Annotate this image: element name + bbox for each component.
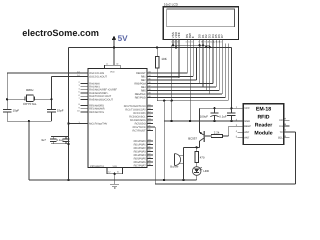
pin RA1/AN1 (3) — [81, 86, 89, 88]
junction MCLR node — [67, 122, 69, 124]
svg-text:RA5/AN4/SS/C2OUT: RA5/AN4/SS/C2OUT — [89, 98, 113, 101]
svg-text:MCLR/Vpp/THV: MCLR/Vpp/THV — [89, 122, 107, 125]
wire right crystal vertical — [51, 77, 53, 110]
resistor R1 10K — [156, 48, 158, 57]
LCD pin VEE (3) — [178, 39, 180, 43]
wire LCD gnd tie — [172, 44, 210, 46]
pin RB2 (35) — [147, 79, 153, 81]
svg-text:GND: GND — [244, 120, 250, 123]
LCD pin RS (4) — [186, 39, 188, 43]
wire to BEEP pin — [229, 125, 244, 127]
wire 5V rail horizontal — [69, 47, 232, 49]
resistor R2 2.2k — [205, 135, 211, 137]
LCD pin D4 (11) — [212, 39, 214, 43]
svg-text:ANT: ANT — [244, 131, 250, 134]
pin RA4/T0CKI/C1OUT (6) — [81, 95, 89, 97]
junction gnd row 1 — [163, 99, 165, 101]
svg-text:VDD: VDD — [110, 71, 115, 74]
LCD pin RW (5) — [189, 39, 191, 43]
svg-text:RD7/PSP7: RD7/PSP7 — [134, 164, 147, 167]
pin MCLR/Vpp/THV (1) — [81, 123, 89, 125]
wire bus D4 — [147, 83, 213, 85]
op-amp U1 PIC16F877A body — [88, 69, 147, 168]
pin RD3/PSP3 (22) — [147, 151, 153, 153]
pin OSC2/CLKOUT (14) — [81, 76, 89, 78]
pin RC7/RX/DT (26) — [147, 130, 153, 132]
LCD pin VSS (1) — [172, 39, 174, 43]
LCD module body — [163, 7, 238, 40]
capacitor C6 0.1uF — [230, 108, 232, 113]
pin RB1 (34) — [147, 76, 153, 78]
svg-text:100uF: 100uF — [200, 114, 208, 118]
wire bus D7 — [147, 93, 222, 95]
wire ground rail — [29, 179, 197, 181]
svg-text:2.2k: 2.2k — [214, 131, 220, 135]
junction crystal left — [6, 98, 8, 100]
capacitor C3 4u7 — [51, 135, 69, 137]
svg-text:VEE: VEE — [177, 32, 181, 38]
junction crystal right — [50, 98, 52, 100]
junction 10K top — [156, 46, 158, 48]
wire OSC1 to crystal — [7, 72, 88, 74]
wire left crystal vertical — [6, 73, 8, 110]
svg-text:EM-18: EM-18 — [256, 106, 271, 112]
LCD pin D0 (7) — [199, 39, 201, 43]
LCD pin D1 (8) — [202, 39, 204, 43]
junction buzzer gnd — [182, 179, 184, 181]
svg-text:470: 470 — [200, 155, 205, 159]
wire up to BEEP — [228, 126, 230, 136]
svg-text:E: E — [191, 36, 195, 38]
wire bus D6 — [147, 90, 219, 92]
pin OSC1/CLKIN (13) — [81, 72, 89, 74]
wire emitter feed — [199, 108, 201, 132]
wire collector down — [199, 141, 201, 147]
svg-text:VCC: VCC — [244, 107, 250, 110]
wire D3 drop — [209, 43, 211, 94]
LCD display area — [167, 9, 235, 27]
wire 10K bottom — [156, 68, 158, 101]
wire bus D5 — [147, 86, 216, 88]
wire collector node — [183, 146, 199, 148]
svg-text:TX: TX — [279, 131, 283, 134]
wire VSS drop — [172, 43, 174, 45]
LCD pin D7 (14) — [221, 39, 223, 43]
svg-text:RB7/PGD: RB7/PGD — [135, 96, 146, 99]
svg-text:Reader: Reader — [255, 122, 273, 128]
svg-text:OSC2/CLKOUT: OSC2/CLKOUT — [89, 75, 107, 78]
junction VSS pins — [114, 173, 116, 175]
svg-text:CRYSTAL: CRYSTAL — [23, 102, 37, 106]
svg-text:5V: 5V — [118, 34, 129, 43]
wire base resistor to corner — [222, 135, 228, 137]
RFID pin VCC (1) — [238, 107, 244, 109]
junction LCD VDD — [175, 46, 177, 48]
svg-text:0.1uF: 0.1uF — [219, 114, 227, 118]
wire bus b2 — [147, 79, 196, 81]
svg-text:8MHz: 8MHz — [26, 88, 34, 92]
pin RC6/TX/CK (25) — [147, 126, 153, 128]
wire bus b7 — [147, 97, 225, 99]
RFID pin D0 (9) — [284, 119, 290, 121]
wire VEE contrast — [157, 77, 179, 79]
LCD pin D6 (13) — [218, 39, 220, 43]
RFID pin ANT (5) — [238, 137, 244, 139]
pin RB4 (37) — [147, 86, 153, 88]
svg-text:0.1uF: 0.1uF — [57, 138, 65, 142]
junction gnd return — [163, 179, 165, 181]
pin RD4/PSP4 (27) — [147, 154, 153, 156]
pin RD0/PSP0 (19) — [147, 140, 153, 142]
svg-text:Buzzer: Buzzer — [170, 166, 178, 169]
svg-text:BEEP: BEEP — [244, 125, 251, 128]
svg-text:VSS: VSS — [113, 165, 118, 168]
svg-text:D1: D1 — [279, 125, 283, 128]
RFID pin GND (2) — [238, 120, 244, 122]
LCD pin D5 (12) — [215, 39, 217, 43]
junction crystal ground tap — [28, 120, 30, 122]
svg-text:electroSome.com: electroSome.com — [22, 28, 99, 38]
junction gnd row 2 — [171, 99, 173, 101]
pin RB7/PGD (40) — [147, 97, 153, 99]
capacitor C1 15pF — [3, 109, 12, 111]
wire LED to ground rail — [196, 175, 198, 180]
wire LCD VDD to 5V rail — [175, 43, 177, 47]
LCD pin D3 (10) — [209, 39, 211, 43]
power supply 5V arrow — [112, 35, 116, 40]
svg-text:RFID: RFID — [257, 114, 269, 120]
RFID module U2 EM-18 body — [243, 104, 284, 145]
wire 5V to MCLR and ground column — [68, 48, 70, 181]
junction ground rail — [67, 179, 69, 181]
wire D2 drop — [205, 43, 207, 90]
svg-text:SEL: SEL — [278, 137, 283, 140]
pin RD6/PSP6 (29) — [147, 161, 153, 163]
svg-text:D0: D0 — [279, 119, 283, 122]
wire LCD gnd tie 2 — [196, 46, 209, 48]
wire LCD RW down to gnd line — [189, 43, 191, 121]
pin RC4/SDI/SDA (23) — [147, 119, 153, 121]
LCD pin E (6) — [192, 39, 194, 43]
wire OSC2 to crystal — [52, 76, 89, 78]
wire bus E — [147, 76, 193, 78]
svg-text:LED: LED — [203, 169, 209, 173]
RFID pin ANT (4) — [238, 131, 244, 133]
wire VSS to ground — [114, 174, 116, 185]
pin RD7/PSP7 (30) — [147, 165, 153, 167]
wire crystal caps bottom — [7, 120, 51, 122]
wire buzzer vertical — [182, 147, 184, 180]
pin RE0/AN5/RD (8) — [81, 105, 89, 107]
RFID pin BEEP (3) — [238, 125, 244, 127]
junction 5V supply/rail — [113, 46, 115, 48]
pin block VSS bottom — [107, 168, 123, 174]
junction LED branch — [196, 146, 198, 148]
svg-text:D7: D7 — [220, 34, 224, 38]
pin RA5/AN4/SS/C2OUT (7) — [81, 98, 89, 100]
pin RC1/T1OSI/CCP2 (16) — [147, 109, 153, 111]
wire D0 drop — [199, 43, 201, 83]
svg-text:RE2/AN7/CS: RE2/AN7/CS — [89, 111, 104, 114]
pin RC0/T1OSO/T1CKI (15) — [147, 105, 153, 107]
wire RX-TX bottom link — [155, 183, 295, 185]
ground symbol — [110, 183, 119, 185]
wire TX column down — [294, 132, 296, 184]
LED D1 — [192, 167, 201, 176]
LCD pin D2 (9) — [205, 39, 207, 43]
RFID pin TX (7) — [284, 131, 290, 133]
capacitor C2 15pF — [47, 109, 56, 111]
buzzer BZ1 — [174, 154, 176, 166]
wire bus b8 / ground tie row — [157, 100, 228, 102]
pin RD5/PSP5 (28) — [147, 158, 153, 160]
capacitor C4 0.1uF — [63, 138, 70, 140]
svg-text:RC7/RX/DT: RC7/RX/DT — [132, 129, 146, 132]
wire RFID GND line — [164, 120, 243, 122]
svg-text:15pF: 15pF — [13, 109, 20, 113]
wire TX pin extension — [289, 131, 295, 133]
pin RB0/INT (33) — [147, 72, 153, 74]
pin RA3/AN3/VREF+ (5) — [81, 92, 89, 94]
pin RB6/PGC (39) — [147, 93, 153, 95]
junction MCLR caps bottom — [67, 143, 69, 145]
pin RB5 (38) — [147, 90, 153, 92]
pin RA2/AN2/VREF-/CVREF (4) — [81, 89, 89, 91]
wire 5V supply drop to VDD — [113, 40, 115, 66]
pin block VDD top — [105, 65, 121, 68]
pin RC2/CCP1 (17) — [147, 112, 153, 114]
pin RC3/SCK/SCL (18) — [147, 116, 153, 118]
crystal X1 8MHz — [7, 98, 25, 100]
svg-text:Module: Module — [254, 130, 272, 136]
wire RFID VCC line — [200, 107, 244, 109]
svg-text:10K: 10K — [161, 57, 167, 61]
pin RD1/PSP1 (20) — [147, 144, 153, 146]
svg-text:BC557: BC557 — [188, 137, 197, 141]
wire RC6 to RX column — [147, 126, 155, 128]
wire LCD VSS down to gnd line — [171, 45, 173, 121]
pin RB3/PGM (36) — [147, 83, 153, 85]
wire crystal tap to ground rail — [28, 121, 30, 180]
RFID pin SEL (6) — [284, 137, 290, 139]
wire bus RS — [147, 72, 187, 74]
svg-text:16x2 LCD: 16x2 LCD — [164, 3, 179, 7]
pin RE1/AN6/WR (9) — [81, 108, 89, 110]
LCD pin VDD (2) — [175, 39, 177, 43]
wire D1 drop — [202, 43, 204, 87]
RFID pin D1 (8) — [284, 125, 290, 127]
svg-text:15pF: 15pF — [57, 109, 64, 113]
resistor R3 470 — [196, 147, 198, 151]
pin RC5/SDO (24) — [147, 123, 153, 125]
wire LCD VEE drop — [178, 43, 180, 77]
wire MCLR pin — [69, 123, 89, 125]
pin RE2/AN7/CS (10) — [81, 111, 89, 113]
wire gnd return down — [163, 101, 165, 180]
wire RX column down — [154, 127, 156, 184]
svg-text:PIC16F877A: PIC16F877A — [90, 165, 104, 168]
wire 5V drop to RFID VCC — [230, 48, 232, 109]
capacitor C5 100uF — [214, 108, 216, 113]
svg-text:ANT: ANT — [244, 137, 250, 140]
pin RA0/AN0 (2) — [81, 82, 89, 84]
svg-text:4u7: 4u7 — [41, 138, 46, 142]
pin RD2/PSP2 (21) — [147, 147, 153, 149]
